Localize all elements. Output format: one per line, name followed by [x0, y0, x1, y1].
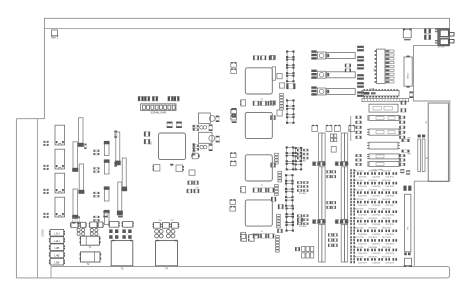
SIP resistor pack RP3 — [319, 224, 322, 262]
svg-text:R105 R106: R105 R106 — [382, 170, 391, 172]
SIP resistor pack RP1 — [319, 133, 322, 162]
pads for T4 — [155, 230, 159, 234]
svg-text:C160 R170: C160 R170 — [385, 234, 394, 236]
svg-text:R143 R144: R143 R144 — [369, 209, 378, 211]
resistor R73 — [270, 101, 272, 106]
svg-text:MNT1: MNT1 — [51, 37, 58, 40]
resistor R75 — [270, 115, 272, 120]
mounting hole MH1 — [52, 30, 58, 36]
capacitor C37 — [193, 125, 196, 126]
pad stack PS2 — [297, 181, 299, 183]
capacitor C96 — [154, 223, 161, 229]
capacitor C109 — [230, 161, 236, 165]
pad stack PS1 — [297, 149, 299, 151]
switch S1 — [403, 29, 411, 38]
resistor cluster RC3 — [326, 201, 327, 204]
transformer T1 — [80, 236, 99, 245]
capacitor C82 — [118, 182, 122, 213]
svg-text:C155 R165: C155 R165 — [358, 224, 367, 226]
resistor cluster RC1 — [330, 134, 333, 137]
resistor network RN13 — [278, 171, 282, 173]
svg-text:SDRAM_PWR: SDRAM_PWR — [151, 111, 167, 114]
bottom rail left end — [50, 266, 52, 278]
svg-text:C156 R166: C156 R166 — [372, 224, 381, 226]
resistor group row 5 — [350, 207, 352, 209]
capacitor bank C120-C125 — [357, 46, 363, 48]
capacitor C49 — [232, 116, 237, 118]
capacitor C44 — [216, 116, 220, 118]
inductor L22 — [317, 88, 325, 95]
line driver U7 — [245, 200, 272, 226]
svg-text:R151 R152: R151 R152 — [355, 218, 364, 220]
transceiver U14 — [369, 154, 399, 159]
SIP resistor pack RP4 — [341, 133, 344, 162]
svg-text:R135 R136: R135 R136 — [382, 199, 391, 201]
transceiver U12 — [369, 129, 399, 135]
connector pads J10 — [43, 141, 45, 143]
capacitor C113 — [230, 200, 236, 204]
optocoupler U11 — [55, 149, 65, 169]
inductor L5B — [50, 258, 64, 265]
resistor R95 — [406, 170, 410, 171]
svg-text:J1 CLK: J1 CLK — [438, 46, 445, 48]
optocoupler U12 — [55, 173, 65, 193]
svg-text:R175 R176: R175 R176 — [382, 237, 391, 239]
jumper link across RP col 2 — [335, 162, 338, 166]
svg-text:R23 R24: R23 R24 — [299, 193, 306, 195]
capacitor bank C104a-c — [253, 188, 255, 193]
svg-text:OSC1: OSC1 — [407, 72, 409, 79]
svg-text:R25 R26: R25 R26 — [299, 226, 306, 228]
chain parts group 5 — [287, 208, 293, 214]
relay K3 — [327, 89, 356, 95]
resistor R92 — [402, 139, 404, 142]
capacitor C42 — [144, 132, 146, 137]
board outline — [16, 18, 449, 266]
pin pads of U8 — [385, 50, 394, 52]
svg-text:L2H: L2H — [54, 239, 59, 243]
resistor group row 7 — [350, 227, 352, 229]
resistor R60 — [241, 100, 246, 106]
capacitor C115 — [345, 64, 347, 68]
capacitor C127 — [424, 35, 426, 40]
relay K2 — [327, 72, 356, 78]
resistor R94 — [400, 169, 404, 170]
EPROM U8 — [377, 49, 385, 83]
resistor group row 8 — [350, 236, 352, 238]
header J5 SDRAM_PWR — [141, 104, 176, 111]
resistor network RN20 — [362, 98, 409, 101]
capacitor C43 — [144, 139, 146, 144]
svg-text:C162 R172: C162 R172 — [372, 243, 381, 245]
resistor network RN15 — [277, 214, 281, 216]
svg-text:R165 R166: R165 R166 — [382, 228, 391, 230]
resistor R51 — [114, 162, 117, 164]
svg-text:C96: C96 — [158, 220, 161, 222]
line driver U6 — [245, 155, 272, 181]
regulator U3 — [199, 132, 213, 143]
svg-text:R183 R184: R183 R184 — [369, 247, 378, 249]
jumper JP1 — [200, 126, 203, 129]
connector pads J13 — [43, 213, 45, 215]
svg-text:R111 R112: R111 R112 — [355, 180, 363, 182]
jumper JP2 — [200, 146, 203, 149]
resistor group row 1 — [350, 169, 352, 171]
transformer T2 — [80, 252, 100, 262]
svg-text:L5B: L5B — [54, 261, 59, 265]
svg-text:L3B: L3B — [54, 246, 59, 250]
resistor R42b — [189, 170, 195, 175]
svg-text:C142 R152: C142 R152 — [385, 177, 394, 179]
jumper link across RP col 2 — [335, 219, 338, 223]
capacitor C73 — [104, 211, 109, 225]
coaxial jack J1 — [438, 29, 449, 46]
oscillator OSC1 — [404, 57, 412, 86]
svg-text:R101 R102: R101 R102 — [355, 170, 364, 172]
capacitor C36 — [176, 122, 182, 124]
svg-text:R193 R194: R193 R194 — [369, 256, 378, 258]
capacitor C46 — [216, 136, 220, 138]
connector pads J11 — [43, 165, 45, 167]
diode D11 — [93, 167, 95, 169]
svg-text:R161 R162: R161 R162 — [355, 228, 364, 230]
filter FL1 pads — [311, 50, 317, 52]
oscillator X1 — [153, 165, 160, 171]
resistor R70 — [270, 55, 272, 60]
svg-text:C161 R171: C161 R171 — [358, 243, 367, 245]
inductor L2H — [50, 237, 64, 244]
svg-text:C167 R177: C167 R177 — [358, 262, 367, 264]
svg-text:C141 R151: C141 R151 — [372, 177, 381, 179]
capacitor C111 — [286, 83, 288, 89]
capacitor C91 — [80, 222, 85, 227]
svg-text:R21 R22: R21 R22 — [299, 161, 306, 163]
inductor L20 — [317, 52, 325, 59]
capacitor C61 — [73, 142, 77, 169]
pad grid PG1 — [302, 246, 305, 251]
svg-text:C148 R158: C148 R158 — [385, 196, 394, 198]
board top inner edge line — [44, 27, 449, 29]
front panel inner edge — [36, 119, 38, 278]
connector pads J12 — [43, 189, 45, 191]
resistor R83 — [277, 229, 279, 233]
capacitor C95 — [123, 221, 133, 227]
resistor R62 — [241, 232, 246, 238]
svg-text:R103 R104: R103 R104 — [369, 170, 378, 172]
capacitor C60 — [79, 118, 83, 144]
svg-text:CON3: CON3 — [40, 229, 44, 237]
svg-text:R123 R124: R123 R124 — [369, 190, 378, 192]
resistor R71 — [277, 73, 282, 78]
inductor L10 — [209, 116, 215, 122]
resistor R76 — [270, 163, 272, 168]
svg-text:R113 R114: R113 R114 — [369, 180, 377, 182]
svg-text:C146 R156: C146 R156 — [358, 196, 367, 198]
resistor R74 — [277, 110, 282, 116]
capacitor C93 — [98, 222, 103, 228]
svg-text:C143 R153: C143 R153 — [358, 186, 367, 188]
resistor R78 — [278, 204, 280, 209]
svg-text:C152 R162: C152 R162 — [358, 215, 367, 217]
inductor L11 — [209, 135, 215, 141]
capacitor C126 — [424, 29, 426, 34]
svg-text:R93: R93 — [407, 154, 410, 156]
chain parts group 4 — [286, 175, 292, 181]
svg-text:C1: C1 — [261, 231, 263, 233]
VME connector P2 — [405, 194, 411, 252]
svg-text:L1H: L1H — [54, 232, 59, 236]
second chain column — [296, 148, 301, 153]
resistor bank RB2 — [399, 116, 401, 119]
resistor R91 — [401, 108, 403, 112]
resistor cluster RC2 — [326, 170, 327, 173]
resistor group row 4 — [350, 198, 352, 200]
svg-text:R195 R196: R195 R196 — [382, 256, 391, 258]
svg-text:C145 R155: C145 R155 — [385, 186, 394, 188]
svg-text:R153 R154: R153 R154 — [369, 218, 378, 220]
resistor network RN12 — [275, 153, 279, 155]
resistor cluster RC4 — [328, 233, 329, 236]
capacitor C110 — [272, 67, 275, 80]
resistor network RN14 — [275, 185, 279, 187]
filter FL2 pads — [311, 70, 317, 72]
chain parts group 3 — [287, 147, 293, 153]
resistor R72 — [279, 83, 284, 88]
svg-text:C147 R157: C147 R157 — [372, 196, 381, 198]
resistor group row 9 — [350, 246, 352, 248]
svg-text:C1: C1 — [261, 98, 263, 100]
capacitor C106 — [231, 109, 237, 113]
svg-text:R133 R134: R133 R134 — [369, 199, 378, 201]
svg-text:R141 R142: R141 R142 — [355, 209, 364, 211]
pad stack PS3 — [297, 215, 299, 217]
resistor R79 — [297, 218, 299, 223]
capacitor C80 — [116, 132, 120, 163]
resistor R61 — [241, 187, 246, 193]
svg-text:L4B: L4B — [54, 253, 59, 257]
SIP resistor pack RP2 — [319, 167, 322, 220]
buffer U10 — [369, 104, 398, 112]
capacitor C63 — [73, 189, 77, 216]
capacitor C35 — [167, 122, 173, 124]
jumper link across RP col 1 — [313, 219, 316, 223]
svg-text:R163 R164: R163 R164 — [369, 228, 378, 230]
resistor R90 — [401, 101, 403, 105]
relay K1 — [327, 53, 356, 59]
svg-text:C159 R169: C159 R169 — [372, 234, 381, 236]
capacitor C117 — [409, 92, 413, 94]
resistor R43 — [193, 129, 195, 131]
svg-text:C168 R178: C168 R178 — [372, 262, 381, 264]
line driver U4 — [245, 68, 272, 94]
capacitor C114 — [230, 207, 236, 211]
capacitor C97 — [163, 223, 170, 229]
svg-text:R121 R122: R121 R122 — [355, 190, 364, 192]
SIP resistor pack RP6 — [341, 224, 344, 262]
svg-text:R171 R172: R171 R172 — [355, 237, 364, 239]
capacitor C41c — [187, 189, 189, 193]
capacitor C71 — [104, 160, 109, 174]
SIP resistor pack RP5 — [341, 167, 344, 220]
transformer T3 — [111, 241, 133, 266]
capacitor C76 — [118, 211, 123, 213]
svg-text:C163 R173: C163 R173 — [385, 243, 394, 245]
resistor network RN17 — [276, 236, 280, 238]
capacitor bank C103a-c — [253, 101, 255, 106]
resistor bank RB4 — [399, 154, 401, 157]
svg-text:C151 R161: C151 R161 — [385, 205, 394, 207]
svg-text:C157 R167: C157 R167 — [385, 224, 394, 226]
svg-text:C150 R160: C150 R160 — [372, 205, 381, 207]
capacitor C112 — [295, 247, 297, 251]
capacitor C90 — [71, 222, 78, 227]
resistor network chain RN10 — [287, 51, 293, 57]
capacitor C108 — [230, 153, 236, 157]
oscillator X2 — [176, 165, 183, 172]
svg-text:R145 R146: R145 R146 — [382, 209, 391, 211]
pads for T1 — [77, 228, 80, 231]
svg-text:C165 R175: C165 R175 — [372, 253, 381, 255]
transceiver U11 — [369, 115, 399, 120]
capacitor C98 — [172, 223, 179, 229]
resistor R50 — [114, 131, 117, 133]
capacitor C62 — [79, 164, 83, 191]
resistor R52 — [84, 144, 86, 146]
inductor L21 — [317, 71, 325, 78]
capacitor C104 — [231, 63, 237, 67]
capacitor C107 — [231, 116, 237, 120]
resistor R96 — [331, 147, 336, 153]
line driver U5 — [245, 112, 272, 138]
resistor R88 — [435, 40, 437, 41]
svg-text:R181 R182: R181 R182 — [355, 247, 364, 249]
svg-text:R131 R132: R131 R132 — [355, 199, 364, 201]
bottom rail top edge — [16, 266, 449, 278]
svg-text:C166 R176: C166 R176 — [385, 253, 394, 255]
twin filter bars FB1 FB2 — [418, 139, 421, 171]
transistor Q2 — [326, 126, 332, 132]
diode D13 — [93, 216, 95, 218]
chain parts group 2 — [287, 100, 293, 106]
svg-text:C41: C41 — [195, 187, 198, 189]
inductor L3B — [50, 244, 64, 251]
capacitor bank C105a-c — [253, 234, 255, 239]
svg-text:C158 R168: C158 R168 — [358, 234, 367, 236]
capacitor C39 — [193, 150, 196, 152]
filter FL3 pads — [311, 86, 317, 88]
svg-text:C149 R159: C149 R159 — [358, 205, 367, 207]
VME connector P1 — [428, 103, 448, 181]
resistor group row 3 — [350, 188, 352, 190]
resistor network RN11 — [280, 93, 284, 95]
buffer U13 — [369, 142, 398, 149]
capacitor C47 — [209, 144, 213, 146]
svg-text:C153 R163: C153 R163 — [372, 215, 381, 217]
wire net J4 — [350, 116, 352, 141]
resistor R81 — [249, 235, 254, 242]
front panel outer edge — [15, 119, 17, 278]
svg-text:R173 R174: R173 R174 — [369, 237, 378, 239]
svg-text:C140 R150: C140 R150 — [358, 177, 367, 179]
capacitor C116 — [345, 69, 347, 73]
diode D1 — [192, 153, 198, 159]
capacitor C81 — [122, 158, 126, 189]
resistor R77 — [271, 197, 273, 202]
pads for T3 — [109, 229, 112, 233]
FPGA U1 — [159, 133, 186, 160]
inductor L4B — [50, 251, 64, 258]
diode D12 — [93, 192, 95, 194]
capacitor bank C30-C34 — [138, 96, 140, 101]
resistor group row 6 — [350, 217, 352, 219]
svg-text:R92: R92 — [407, 137, 410, 139]
resistor R44 — [193, 145, 195, 147]
capacitor C105 — [231, 69, 237, 73]
resistor R41 — [170, 164, 173, 166]
optocoupler U10 — [55, 125, 65, 145]
resistor bank RB1 — [356, 116, 358, 119]
regulator U2 — [199, 113, 211, 123]
svg-text:C97: C97 — [170, 220, 173, 222]
svg-text:R185 R186: R185 R186 — [382, 247, 391, 249]
capacitor C70 — [104, 142, 109, 156]
resistor R80 — [241, 235, 246, 242]
capacitor C92 — [90, 222, 97, 228]
inductor L1H — [50, 229, 64, 236]
resistor R42 — [193, 125, 195, 127]
resistor group row 2 — [350, 179, 352, 181]
capacitor C48 — [232, 108, 237, 110]
capacitor C64 — [72, 216, 75, 218]
diode D10 — [93, 150, 95, 152]
transceiver U15 — [369, 161, 399, 166]
svg-text:C169 R179: C169 R179 — [385, 262, 394, 264]
svg-text:U9 A8: U9 A8 — [369, 88, 374, 91]
svg-text:R155 R156: R155 R156 — [382, 218, 391, 220]
resistor R87 — [435, 29, 437, 30]
resistor R45 — [193, 148, 195, 150]
svg-text:C154 R164: C154 R164 — [385, 215, 394, 217]
svg-text:C164 R174: C164 R174 — [358, 253, 367, 255]
resistor group row 10 — [350, 255, 352, 257]
capacitor C72 — [104, 187, 109, 201]
svg-text:C1: C1 — [261, 185, 263, 187]
transistor Q1 — [312, 126, 318, 132]
svg-text:R115 R116: R115 R116 — [382, 180, 390, 182]
svg-text:R125 R126: R125 R126 — [382, 190, 391, 192]
capacitor C75 — [103, 211, 108, 213]
resistor bank RB3 — [356, 154, 358, 157]
capacitor C45 — [209, 124, 213, 126]
optocoupler U13 — [55, 197, 65, 217]
svg-text:R191 R192: R191 R192 — [355, 256, 364, 258]
jumper link across RP col 1 — [313, 162, 316, 166]
transistor Q4 — [349, 126, 355, 132]
capacitor C65 — [77, 216, 80, 218]
capacitor C41 — [188, 181, 190, 185]
capacitor bank C100-C102 — [253, 56, 255, 61]
capacitor C94 — [109, 221, 118, 227]
transceiver U9 — [362, 90, 399, 96]
transformer T4 — [156, 241, 178, 266]
capacitor C38 — [193, 143, 196, 145]
transistor Q3 — [335, 126, 341, 132]
svg-text:C144 R154: C144 R154 — [372, 186, 381, 188]
resistor R93 — [402, 150, 404, 153]
switch S2 — [405, 258, 412, 265]
capacitor C41b — [193, 181, 195, 185]
chain parts group 6 — [287, 217, 293, 223]
